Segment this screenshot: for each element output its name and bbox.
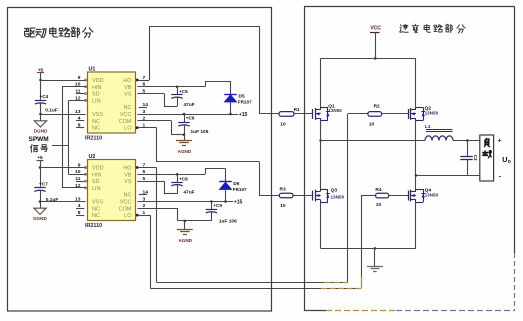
resistor R3 — [279, 187, 293, 210]
ground DGND (lower) — [33, 208, 47, 221]
wire U2 HO to R2 — [137, 114, 368, 283]
svg-text:SD: SD — [92, 92, 100, 98]
svg-text:13N50: 13N50 — [331, 194, 345, 199]
load box (fu zai) — [480, 135, 494, 181]
inductor L1 — [425, 124, 453, 140]
wire node A to Q3 drain — [320, 141, 322, 190]
svg-text:+C6: +C6 — [186, 116, 195, 121]
power +15 (upper) — [239, 112, 248, 118]
svg-text:Q3: Q3 — [331, 188, 338, 194]
svg-text:10: 10 — [280, 203, 286, 209]
svg-text:VSS: VSS — [92, 112, 103, 118]
svg-text:HIN: HIN — [92, 172, 102, 178]
svg-text:R3: R3 — [280, 187, 286, 193]
wire node A to L1 — [321, 140, 425, 142]
svg-text:R4: R4 — [375, 187, 381, 193]
label: signal (xin hao) — [30, 145, 47, 153]
power +5 (upper) — [37, 67, 44, 80]
wire R1 to Q1 gate — [294, 113, 313, 115]
svg-text:FR107: FR107 — [233, 187, 247, 192]
svg-text:VB: VB — [124, 85, 132, 91]
wire U2 LO to R4 — [137, 196, 375, 289]
svg-text:0.1uF: 0.1uF — [45, 108, 58, 114]
svg-text:+C5: +C5 — [179, 89, 188, 94]
power +15 (lower) — [234, 200, 243, 206]
svg-text:LO: LO — [124, 126, 132, 132]
capacitor C5 — [171, 86, 194, 108]
IR2110 gate driver U1 — [75, 67, 148, 142]
wire highlight (tan) on HO feed — [324, 282, 348, 284]
ground AGND (lower) — [177, 221, 193, 243]
svg-text:LO: LO — [124, 213, 132, 219]
svg-text:NC: NC — [92, 119, 100, 125]
label output - — [499, 174, 502, 181]
svg-text:10: 10 — [376, 202, 382, 208]
svg-text:47uF: 47uF — [184, 102, 195, 108]
wire +5 to U1 VDD — [39, 79, 85, 82]
svg-text:C3: C3 — [473, 155, 478, 161]
wire R2 to Q2 gate — [382, 113, 409, 115]
wire Q2 source down to load node B — [415, 120, 418, 189]
svg-text:IR2110: IR2110 — [85, 223, 102, 229]
svg-text:R1: R1 — [294, 107, 300, 113]
SPWM signal label — [29, 136, 49, 143]
wire U2 VSS to rail — [39, 200, 86, 203]
svg-text:AGND: AGND — [178, 149, 192, 154]
capacitor C6 — [178, 113, 208, 135]
resistor R4 — [375, 187, 388, 208]
wire U2 COM — [137, 208, 211, 222]
svg-text:NC: NC — [124, 105, 132, 111]
svg-text:NC: NC — [124, 193, 132, 199]
capacitor C3 — [460, 141, 478, 176]
svg-text:10: 10 — [280, 122, 286, 128]
svg-text:13N50: 13N50 — [425, 192, 439, 197]
wire +5 to U2 VDD — [39, 166, 86, 169]
svg-text:VDD: VDD — [92, 78, 104, 84]
svg-text:DGND: DGND — [33, 216, 47, 221]
IR2110 gate driver U2 — [75, 154, 148, 229]
transistor Q3 — [313, 188, 345, 203]
label output + — [498, 138, 502, 145]
transistor Q4 — [409, 187, 439, 202]
svg-text:+C8: +C8 — [179, 176, 188, 181]
svg-text:+: + — [498, 138, 502, 145]
svg-text:NC: NC — [92, 206, 100, 212]
wire rail lower — [40, 168, 42, 209]
svg-text:+5: +5 — [37, 155, 43, 160]
svg-text:NC: NC — [92, 213, 100, 219]
wire rail upper — [40, 80, 42, 121]
transistor Q1 — [313, 103, 343, 120]
svg-text:FR107: FR107 — [238, 100, 252, 105]
svg-text:L1: L1 — [425, 124, 431, 130]
svg-text:13N50: 13N50 — [328, 108, 342, 113]
wire U2 VS — [137, 181, 177, 194]
ground AGND (upper) — [176, 135, 192, 154]
wire U1 LIN / U2 HIN net — [69, 100, 86, 174]
wire U1 VSS to rail — [39, 113, 85, 116]
wire U1 HO to R1 — [137, 26, 279, 114]
wire U1 VCC to +15 — [137, 113, 238, 116]
svg-text:VB: VB — [124, 172, 132, 178]
svg-text:VS: VS — [124, 179, 132, 185]
svg-text:47uF: 47uF — [184, 189, 195, 195]
svg-text:VS: VS — [124, 92, 132, 98]
svg-text:VCC: VCC — [120, 112, 132, 118]
wire U2 VB (bootstrap) — [137, 169, 225, 182]
title: drive circuit section — [25, 27, 93, 38]
wire SPWM to LIN net — [52, 145, 69, 147]
ground DGND (upper) — [34, 121, 48, 134]
wire node B to load bottom — [416, 175, 480, 177]
svg-text:NC: NC — [92, 126, 100, 132]
svg-text:+C7: +C7 — [39, 182, 48, 187]
diode D5 FR107 — [224, 94, 252, 114]
wire highlight (tan) on LO feed — [321, 277, 362, 289]
wire L1 to load — [453, 139, 480, 142]
svg-text:+C9: +C9 — [213, 203, 222, 208]
svg-text:1uF 106: 1uF 106 — [219, 219, 237, 225]
wire U1 COM — [137, 121, 185, 137]
wire U1 VS — [137, 94, 177, 107]
power VCC — [370, 26, 381, 59]
resistor R2 — [368, 103, 382, 127]
svg-text:U: U — [502, 155, 507, 164]
wire ground rail — [321, 202, 416, 250]
label Uo — [502, 155, 511, 165]
svg-text:HO: HO — [123, 78, 132, 84]
svg-text:VSS: VSS — [92, 200, 103, 206]
title: inverter circuit section — [400, 24, 465, 33]
svg-text:+5: +5 — [38, 67, 44, 72]
ground (inverter) — [367, 248, 383, 271]
resistor R1 — [279, 107, 300, 128]
capacitor C8 — [171, 173, 194, 195]
power +5 (lower) — [36, 155, 43, 168]
svg-text:1uF 106: 1uF 106 — [191, 129, 209, 135]
svg-text:+C4: +C4 — [40, 94, 49, 99]
svg-text:VDD: VDD — [92, 166, 104, 172]
drive-section frame (left box) — [8, 8, 272, 312]
capacitor C9 — [206, 200, 237, 224]
svg-text:HO: HO — [123, 166, 132, 172]
transistor Q2 — [409, 106, 439, 121]
svg-text:R2: R2 — [374, 103, 380, 109]
inverter-section frame (right box) — [304, 7, 515, 312]
wire R3 to Q3 gate — [293, 195, 313, 197]
svg-text:VCC: VCC — [120, 200, 132, 206]
svg-text:LIN: LIN — [92, 186, 101, 192]
wire U2 VCC to +15 — [137, 200, 233, 203]
svg-text:VCC: VCC — [370, 26, 381, 32]
wire U1 LO to R3 — [137, 128, 279, 196]
svg-text:13N50: 13N50 — [425, 111, 439, 116]
wire Q1 source to node A — [319, 120, 322, 141]
wire U1 HIN / U2 LIN net — [62, 87, 86, 188]
svg-text:+15: +15 — [239, 112, 248, 118]
svg-text:LIN: LIN — [92, 98, 101, 104]
diode D6 FR107 — [219, 181, 247, 201]
capacitor C4 — [35, 94, 58, 113]
svg-text:SD: SD — [92, 179, 100, 185]
svg-text:10: 10 — [369, 121, 375, 127]
wire R4 to Q4 gate — [389, 195, 408, 197]
svg-text:o: o — [508, 159, 511, 165]
svg-text:COM: COM — [119, 119, 132, 125]
svg-text:IR2110: IR2110 — [85, 136, 102, 142]
svg-text:HIN: HIN — [92, 85, 102, 91]
svg-text:U2: U2 — [89, 154, 96, 160]
wire VCC top rail — [321, 57, 416, 107]
capacitor C7 — [34, 182, 58, 203]
svg-text:AGND: AGND — [178, 238, 192, 243]
svg-text:U1: U1 — [89, 67, 96, 73]
wire U1 VB (bootstrap) — [137, 81, 230, 94]
svg-text:+15: +15 — [234, 200, 243, 206]
svg-text:DGND: DGND — [34, 129, 48, 134]
svg-text:COM: COM — [119, 206, 132, 212]
svg-text:SPWM: SPWM — [29, 136, 49, 143]
